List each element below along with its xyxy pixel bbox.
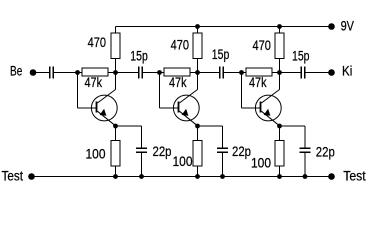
svg-text:47k: 47k (85, 75, 103, 90)
svg-text:15p: 15p (130, 48, 148, 63)
svg-text:22p: 22p (232, 144, 251, 159)
svg-text:470: 470 (171, 37, 189, 52)
svg-text:Ki: Ki (342, 63, 352, 78)
svg-text:47k: 47k (249, 75, 267, 90)
svg-text:Test: Test (2, 168, 24, 183)
svg-text:100: 100 (251, 155, 271, 170)
svg-text:470: 470 (88, 35, 106, 50)
svg-text:100: 100 (86, 146, 106, 161)
svg-text:Be: Be (10, 64, 22, 79)
svg-text:22p: 22p (316, 144, 335, 159)
svg-text:100: 100 (173, 154, 193, 169)
svg-text:22p: 22p (153, 144, 172, 159)
svg-text:9V: 9V (341, 18, 354, 33)
svg-text:47k: 47k (169, 75, 187, 90)
svg-text:15p: 15p (212, 47, 230, 62)
svg-text:Test: Test (343, 169, 366, 184)
svg-text:15p: 15p (292, 49, 310, 64)
svg-text:470: 470 (253, 38, 271, 53)
